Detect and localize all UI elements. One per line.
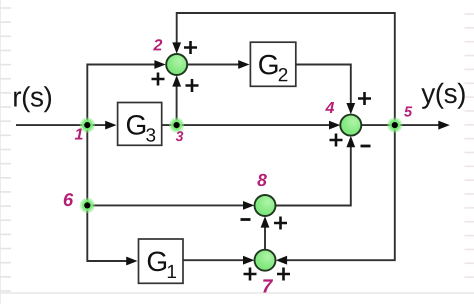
arrow into junction 2 top <box>172 42 181 53</box>
arrowhead output y(s) <box>438 121 450 130</box>
wire G3 to summing junction 4 <box>162 124 330 126</box>
plus sign junction 7 bottom right <box>277 268 290 281</box>
plus sign junction 2 left <box>152 73 165 86</box>
wire node 6 to junction 8 left <box>87 204 243 206</box>
arrow into junction 8 left <box>243 201 254 210</box>
plus sign junction 2 top right <box>184 41 197 54</box>
wire G2 output down into junction 4 top <box>296 65 351 104</box>
svg-text:3: 3 <box>145 126 156 147</box>
svg-text:1: 1 <box>75 126 84 143</box>
svg-text:G: G <box>146 246 168 277</box>
arrow into G2 <box>238 60 249 69</box>
minus sign junction 8 left <box>241 218 251 221</box>
arrow into junction 4 bottom <box>346 136 355 147</box>
wire G1 output to junction 7 left <box>183 259 244 261</box>
plus sign junction 4 bottom left <box>330 134 343 147</box>
summing junction 4 <box>340 115 361 136</box>
wire top feedback node 5 to junction 2 top <box>177 13 395 125</box>
node 6 <box>80 198 95 213</box>
svg-text:7: 7 <box>262 276 274 297</box>
node 1 <box>80 118 95 133</box>
block G2 <box>250 42 295 86</box>
svg-text:y(s): y(s) <box>421 78 466 109</box>
block G1 <box>139 239 184 283</box>
svg-text:G: G <box>125 110 147 141</box>
svg-text:2: 2 <box>153 37 163 54</box>
wire node 1 branch up to junction 2 <box>87 65 154 126</box>
svg-text:5: 5 <box>404 104 413 120</box>
arrow into G1 <box>126 257 137 266</box>
wire input r(s) to G3 <box>16 124 106 126</box>
svg-text:3: 3 <box>176 128 184 144</box>
svg-text:G: G <box>258 49 280 80</box>
wire junction 8 output up into junction 4 bottom <box>276 147 351 206</box>
arrow into junction 7 right <box>276 256 287 265</box>
wire junction 2 output to G2 <box>188 64 239 66</box>
summing junction 7 <box>255 250 276 271</box>
node 3 <box>169 118 184 133</box>
minus sign junction 4 bottom right <box>361 145 371 148</box>
svg-text:4: 4 <box>325 100 335 117</box>
wire output junction 4 to y(s) <box>362 124 440 126</box>
svg-text:6: 6 <box>63 189 74 210</box>
wire bottom feedback node 5 down to junction 7 right <box>287 125 395 260</box>
plus sign junction 7 bottom left <box>244 268 257 281</box>
arrow into G3 <box>105 121 116 130</box>
node 5 <box>387 118 402 133</box>
arrow into junction 2 bottom <box>172 75 181 86</box>
arrow into junction 7 left <box>243 256 254 265</box>
plus sign junction 4 top <box>358 92 371 105</box>
arrow into junction 8 bottom <box>261 216 270 227</box>
arrow into junction 4 left <box>329 121 340 130</box>
summing junction 2 <box>166 54 187 75</box>
plus sign junction 2 bottom right <box>186 79 199 92</box>
plus sign junction 8 bottom right <box>274 217 287 230</box>
svg-text:r(s): r(s) <box>12 82 52 113</box>
svg-text:8: 8 <box>257 170 267 190</box>
wire junction 7 output up to junction 8 bottom <box>264 227 266 249</box>
wire node 3 branch up into junction 2 bottom <box>176 86 178 125</box>
arrow into junction 4 top <box>346 103 355 114</box>
wire node 1 branch down through node 6 to G1 <box>87 125 126 261</box>
svg-text:2: 2 <box>278 65 289 86</box>
svg-text:1: 1 <box>166 262 177 283</box>
block G3 <box>118 103 162 147</box>
summing junction 8 <box>255 195 276 216</box>
arrow into junction 2 left <box>154 60 165 69</box>
